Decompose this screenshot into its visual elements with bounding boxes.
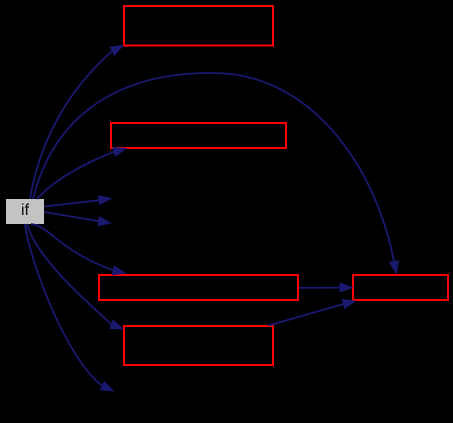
edge if->box5 (big arc) [33, 73, 399, 275]
edge if->box3 [31, 224, 127, 275]
edge if->hidden-node-b (lower right arrow) [44, 212, 112, 226]
edge box3->box5 [299, 282, 354, 292]
edge if->hidden-node-a (upper right arrow) [44, 195, 112, 207]
edge box4->box5 [269, 299, 357, 326]
node box4 (red, bottom) [124, 326, 273, 365]
edge if->hidden-node-c (bottom curve) [25, 224, 115, 392]
edge if->box1 [30, 45, 124, 199]
node box1 (red, top) [124, 6, 273, 46]
node box5 (red, right) [353, 275, 448, 300]
node box2 (red, upper middle) [111, 123, 286, 148]
edge if->box2 [37, 147, 127, 199]
edge if->box4 [27, 224, 124, 330]
node box3 (red, wide middle) [99, 275, 298, 300]
node if (current node, grey) [6, 199, 44, 224]
